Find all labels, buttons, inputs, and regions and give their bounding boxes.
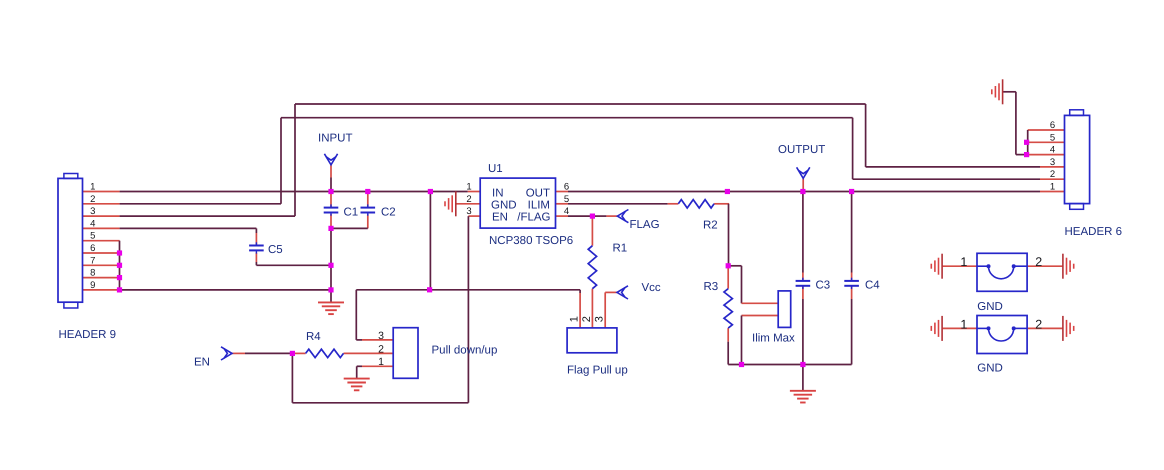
svg-text:C3: C3 bbox=[816, 279, 831, 291]
svg-text:2: 2 bbox=[1035, 317, 1042, 331]
svg-text:HEADER 9: HEADER 9 bbox=[59, 329, 117, 341]
svg-text:1: 1 bbox=[90, 182, 95, 193]
svg-text:6: 6 bbox=[90, 243, 95, 254]
svg-text:C4: C4 bbox=[865, 279, 880, 291]
svg-text:3: 3 bbox=[378, 330, 384, 342]
svg-text:GND: GND bbox=[977, 362, 1003, 374]
svg-text:6: 6 bbox=[1050, 120, 1055, 131]
svg-text:C2: C2 bbox=[381, 206, 396, 218]
svg-text:Pull down/up: Pull down/up bbox=[432, 345, 498, 357]
svg-text:EN: EN bbox=[492, 211, 508, 223]
svg-text:R2: R2 bbox=[703, 219, 718, 231]
svg-text:C5: C5 bbox=[268, 244, 283, 256]
svg-text:7: 7 bbox=[90, 255, 95, 266]
svg-text:HEADER 6: HEADER 6 bbox=[1065, 226, 1123, 238]
svg-text:2: 2 bbox=[378, 343, 384, 355]
svg-text:C1: C1 bbox=[344, 206, 359, 218]
svg-text:1: 1 bbox=[466, 182, 471, 193]
svg-text:FLAG: FLAG bbox=[630, 219, 660, 231]
svg-text:OUTPUT: OUTPUT bbox=[778, 144, 825, 156]
svg-text:R3: R3 bbox=[704, 281, 719, 293]
svg-text:5: 5 bbox=[1050, 132, 1055, 143]
svg-text:R1: R1 bbox=[613, 243, 628, 255]
svg-text:NCP380 TSOP6: NCP380 TSOP6 bbox=[489, 235, 573, 247]
svg-text:GND: GND bbox=[977, 301, 1003, 313]
svg-text:2: 2 bbox=[1050, 169, 1055, 180]
svg-text:EN: EN bbox=[194, 357, 210, 369]
svg-text:R4: R4 bbox=[306, 331, 321, 343]
svg-text:1: 1 bbox=[960, 317, 967, 331]
svg-text:2: 2 bbox=[466, 194, 471, 205]
svg-text:4: 4 bbox=[564, 206, 569, 217]
svg-text:3: 3 bbox=[90, 206, 95, 217]
svg-text:1: 1 bbox=[960, 255, 967, 269]
svg-text:3: 3 bbox=[594, 316, 606, 322]
svg-text:/FLAG: /FLAG bbox=[517, 212, 550, 224]
svg-text:Vcc: Vcc bbox=[642, 282, 661, 294]
svg-text:9: 9 bbox=[90, 280, 95, 291]
svg-text:GND: GND bbox=[491, 199, 517, 211]
svg-text:8: 8 bbox=[90, 268, 95, 279]
svg-text:1: 1 bbox=[378, 356, 384, 368]
svg-text:U1: U1 bbox=[488, 163, 503, 175]
svg-text:OUT: OUT bbox=[526, 187, 550, 199]
svg-text:IN: IN bbox=[492, 187, 504, 199]
svg-text:Flag Pull up: Flag Pull up bbox=[567, 365, 628, 377]
svg-text:2: 2 bbox=[581, 316, 593, 322]
svg-text:INPUT: INPUT bbox=[318, 132, 353, 144]
svg-text:5: 5 bbox=[564, 194, 569, 205]
svg-text:5: 5 bbox=[90, 231, 95, 242]
svg-text:1: 1 bbox=[1050, 182, 1055, 193]
svg-text:4: 4 bbox=[1050, 145, 1055, 156]
svg-text:4: 4 bbox=[90, 218, 95, 229]
svg-text:6: 6 bbox=[564, 182, 569, 193]
svg-text:2: 2 bbox=[90, 194, 95, 205]
svg-text:3: 3 bbox=[1050, 157, 1055, 168]
svg-text:3: 3 bbox=[466, 206, 471, 217]
svg-text:ILIM: ILIM bbox=[528, 199, 550, 211]
svg-text:1: 1 bbox=[569, 316, 581, 322]
svg-text:Ilim Max: Ilim Max bbox=[752, 332, 795, 344]
svg-text:2: 2 bbox=[1035, 255, 1042, 269]
